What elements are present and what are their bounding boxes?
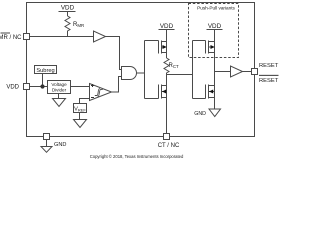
wire Q1 to RCT <box>166 53 168 59</box>
transistor Q4 (NMOS, open-drain out) <box>206 85 215 99</box>
wire MR to buffer <box>30 36 94 38</box>
wire Q4 source to ground <box>214 98 216 110</box>
svg-text:VDD: VDD <box>208 23 222 30</box>
wire AND output to gate bus <box>137 72 145 74</box>
svg-text:VREF: VREF <box>74 107 86 113</box>
ground below voltage divider <box>53 94 66 107</box>
svg-text:VDD: VDD <box>160 23 174 30</box>
svg-text:GND: GND <box>54 142 66 148</box>
svg-text:Push-Pull variants: Push-Pull variants <box>197 6 235 11</box>
svg-text:VDD: VDD <box>6 85 19 91</box>
svg-text:RMR: RMR <box>73 22 84 28</box>
wire GND pin to ground symbol <box>46 140 48 147</box>
overline MR <box>1 32 11 34</box>
wire VDD pin to voltage divider <box>30 86 48 88</box>
VDD power symbol for RMR <box>59 12 76 17</box>
VDD power symbol middle <box>159 30 175 42</box>
block VREF <box>74 104 87 113</box>
ground below VREF <box>74 113 87 128</box>
Q1 body arrow <box>163 45 167 49</box>
svg-text:RCT: RCT <box>169 63 180 69</box>
transistor Q1 (PMOS, CT charge) <box>159 41 167 54</box>
buffer U1 (MR input) <box>94 31 106 42</box>
svg-text:VDD: VDD <box>61 5 75 12</box>
pin RESET <box>252 69 258 75</box>
comparator plus mark <box>91 84 94 87</box>
Q4 body arrow <box>209 90 213 94</box>
wire comparator to AND gate input B <box>112 77 122 93</box>
svg-text:Copyright © 2018, Texas Instru: Copyright © 2018, Texas Instruments Inco… <box>90 154 184 159</box>
wire output node <box>215 53 231 86</box>
push-pull variants dashed box <box>189 4 239 58</box>
svg-text:GND: GND <box>194 111 206 117</box>
pin GND <box>44 134 50 140</box>
comparator U2 <box>90 84 112 101</box>
block Voltage Divider <box>48 81 71 94</box>
Q3 body arrow <box>211 45 215 49</box>
junction dot at VDD/Subreg <box>40 84 44 88</box>
VDD power symbol right (push-pull) <box>207 30 223 42</box>
svg-text:Divider: Divider <box>52 88 67 93</box>
Q2 body arrow <box>162 90 166 94</box>
wire junction to Subreg <box>42 74 44 87</box>
gate bus middle column <box>145 41 159 99</box>
svg-text:CT / NC: CT / NC <box>158 143 180 149</box>
resistor RMR <box>65 16 70 37</box>
pin CT/NC <box>164 134 170 140</box>
svg-text:Voltage: Voltage <box>51 82 67 87</box>
comparator minus mark <box>91 97 94 99</box>
wire VREF to comparator <box>80 99 90 104</box>
hysteresis glyph <box>95 89 103 97</box>
buffer U4 (output) <box>231 66 243 77</box>
svg-text:Subreg: Subreg <box>36 68 54 74</box>
block Subreg <box>35 66 57 74</box>
svg-text:MR / NC: MR / NC <box>0 35 22 41</box>
IC boundary box <box>27 3 255 137</box>
transistor Q2 (NMOS, CT discharge) <box>159 75 167 99</box>
pin MR/NC <box>24 34 30 40</box>
pin VDD <box>24 84 30 90</box>
wire CT node to right gate bus <box>167 74 193 76</box>
svg-text:RESET: RESET <box>259 63 279 69</box>
wire buffer to AND gate input A <box>106 37 122 70</box>
wire buffer to RESET pin <box>243 71 252 73</box>
ground symbol right <box>209 109 221 117</box>
gate bus right column <box>193 41 206 99</box>
AND gate U3 <box>122 67 137 80</box>
wire voltage divider to comparator <box>71 86 90 88</box>
resistor RCT <box>164 58 169 75</box>
svg-text:RESET: RESET <box>259 78 279 84</box>
ground symbol at GND pin <box>41 147 52 153</box>
wire Q2 source to CT pin <box>166 98 168 134</box>
transistor Q3 (PMOS, push-pull) <box>206 41 215 54</box>
